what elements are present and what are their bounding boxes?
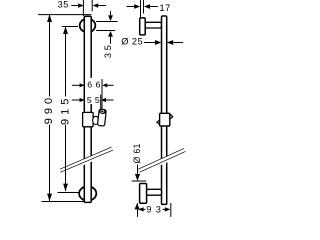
lower wall plate (side view): [140, 184, 147, 204]
holder knob cylinder (front view): [98, 109, 107, 126]
svg-text:Ø 25: Ø 25: [121, 36, 143, 46]
dimension 93 (projection): [137, 203, 139, 217]
break lines (front view): [60, 147, 112, 169]
break gap in bar (front view): [83, 155, 94, 163]
svg-text:990: 990: [43, 94, 55, 124]
dimension 55 (slider cup): [100, 95, 102, 112]
slider right nub (side view): [170, 114, 173, 119]
dimension 915 line: [65, 27, 67, 97]
lower wall holder escutcheon (front view): [79, 186, 96, 200]
holder cup (front view): [93, 116, 99, 124]
upper wall plate (side view): [140, 18, 146, 35]
dimension 66 (slider knob): [83, 78, 85, 113]
dimension 35 vertical (holder offset): [96, 21, 117, 23]
break gap in bar (side view): [160, 155, 169, 162]
svg-text:35: 35: [103, 42, 113, 58]
slider body (side view): [160, 113, 170, 126]
white-out of bar right edge behind 66/55 labels: [85, 78, 92, 104]
svg-text:55: 55: [87, 95, 103, 105]
upper holder arm (side view): [145, 22, 161, 28]
dimension 990 line: [49, 15, 51, 97]
slider left nub (side view): [157, 120, 160, 125]
svg-text:66: 66: [87, 80, 103, 90]
svg-text:35: 35: [58, 0, 69, 10]
slide bar (front view): [84, 16, 91, 202]
svg-text:Ø 61: Ø 61: [132, 143, 142, 163]
svg-text:915: 915: [59, 95, 71, 125]
slide bar (side view): [162, 16, 167, 204]
slider body (front view): [83, 112, 94, 126]
lower holder arm (side view): [147, 189, 162, 195]
svg-text:17: 17: [159, 3, 170, 14]
upper wall holder escutcheon (front view): [80, 19, 96, 33]
break lines (side view): [138, 148, 184, 169]
dimension 17 (wall plate): [140, 0, 142, 18]
